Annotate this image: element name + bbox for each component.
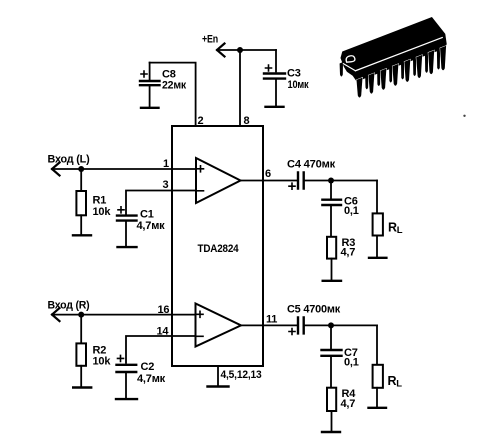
- svg-text:0,1: 0,1: [344, 357, 359, 369]
- label C3 value: [287, 68, 309, 92]
- pin 6 label: [265, 168, 271, 180]
- resistor R1: [76, 169, 86, 235]
- ground R1: [73, 234, 91, 236]
- svg-text:22мк: 22мк: [162, 80, 187, 92]
- wire pin8 vertical: [239, 50, 241, 126]
- arrow input L: [52, 163, 60, 176]
- svg-text:R1: R1: [93, 195, 107, 207]
- svg-text:4,7: 4,7: [341, 247, 356, 259]
- label +En: [202, 34, 218, 46]
- node out R junction: [328, 322, 334, 328]
- svg-text:1: 1: [163, 158, 169, 170]
- svg-text:8: 8: [244, 115, 250, 127]
- resistor R3: [327, 237, 336, 280]
- wire output pin6: [241, 180, 297, 182]
- pin 8 label: [244, 115, 250, 127]
- ground R3: [323, 280, 341, 282]
- resistor RL (top): [373, 213, 383, 257]
- label RL bottom: [388, 374, 403, 390]
- ground IC: [208, 385, 229, 387]
- resistor R2: [76, 315, 86, 387]
- wire pin3: [126, 191, 196, 215]
- DIP-16 package illustration: [340, 18, 447, 98]
- label C8 value: [162, 69, 187, 92]
- label R1 value: [93, 195, 112, 219]
- label Вход (L): [48, 154, 91, 166]
- label C4 value: [287, 159, 336, 171]
- body left end face edge: [343, 63, 355, 70]
- ground C8: [141, 107, 159, 109]
- svg-text:C2: C2: [141, 361, 155, 373]
- svg-text:L: L: [397, 225, 403, 236]
- svg-text:4,7мк: 4,7мк: [137, 220, 166, 232]
- svg-text:3: 3: [163, 179, 169, 191]
- pin 3 label: [163, 179, 169, 191]
- package body: [341, 18, 446, 82]
- ground C1: [118, 246, 137, 248]
- arrow input R: [52, 308, 60, 321]
- svg-text:11: 11: [266, 314, 277, 326]
- svg-text:C3: C3: [287, 68, 301, 80]
- ground C3: [266, 106, 284, 108]
- ground RL bottom: [369, 407, 387, 409]
- label Вход (R): [48, 299, 91, 311]
- wire +En rail: [217, 49, 276, 51]
- svg-text:4,5,12,13: 4,5,12,13: [221, 369, 262, 381]
- front-row pins: [357, 46, 447, 98]
- node input R junction: [78, 312, 84, 318]
- node input L junction: [78, 166, 84, 172]
- wire C6 branch: [330, 181, 332, 199]
- wire IC ground tap: [217, 366, 219, 386]
- svg-text:L: L: [396, 379, 402, 390]
- svg-text:+En: +En: [202, 34, 218, 46]
- svg-text:10мк: 10мк: [288, 79, 310, 91]
- arrow +En: [217, 44, 225, 57]
- back-row pins: [365, 44, 440, 89]
- label C6 value: [344, 195, 359, 217]
- svg-text:10k: 10k: [93, 356, 112, 368]
- label C7 value: [344, 347, 359, 369]
- capacitor C5: [289, 317, 304, 334]
- capacitor C3: [264, 65, 285, 106]
- ground R2: [73, 386, 91, 388]
- wire input R: [52, 314, 196, 316]
- svg-text:C5 4700мк: C5 4700мк: [287, 304, 341, 316]
- pin 16 label: [158, 304, 170, 316]
- wire RL bottom branch: [376, 325, 378, 364]
- wire C3 branch: [275, 50, 277, 72]
- notch: [346, 56, 355, 62]
- wire RL top branch: [376, 181, 378, 214]
- ground R4: [322, 431, 340, 433]
- ground RL top: [369, 257, 386, 259]
- svg-text:Вход (L): Вход (L): [48, 154, 91, 166]
- wire C5 to RL: [305, 324, 377, 326]
- capacitor C4: [289, 173, 304, 190]
- label R4 value: [341, 388, 357, 410]
- capacitor C1: [117, 207, 137, 247]
- wire C4 to RL: [305, 180, 377, 182]
- svg-text:TDA2824: TDA2824: [198, 243, 240, 255]
- IC U1 label TDA2824: [198, 243, 240, 255]
- svg-text:R: R: [388, 374, 397, 388]
- label C5 value: [287, 304, 341, 316]
- label C2 value: [137, 361, 166, 385]
- IC U1 TDA2824 body: [172, 126, 263, 366]
- label R3 value: [341, 237, 356, 259]
- op-amp U1.1: [196, 158, 241, 203]
- scan speck: [463, 115, 465, 117]
- node supply junction: [237, 47, 243, 53]
- wire C7 branch: [330, 325, 332, 349]
- svg-text:14: 14: [157, 326, 170, 338]
- resistor R4: [327, 388, 336, 432]
- svg-text:C4 470мк: C4 470мк: [287, 159, 336, 171]
- label C1 value: [137, 209, 166, 232]
- op-amp U1.2: [196, 304, 242, 347]
- pin 2 label: [198, 115, 204, 127]
- body ridge highlight: [355, 37, 443, 71]
- pin 14 label: [157, 326, 170, 338]
- svg-text:R: R: [388, 221, 397, 235]
- svg-text:10k: 10k: [93, 206, 112, 218]
- svg-text:C1: C1: [140, 209, 154, 221]
- node out L junction: [328, 178, 334, 184]
- label R2 value: [93, 345, 112, 368]
- resistor RL (bottom): [373, 365, 383, 407]
- capacitor C6: [322, 200, 341, 237]
- pin 11 label: [266, 314, 277, 326]
- wire C8 top rail: [150, 63, 196, 126]
- wire output pin11: [241, 324, 297, 326]
- label pins 4,5,12,13: [221, 369, 262, 381]
- svg-text:16: 16: [158, 304, 170, 316]
- wire pin14: [126, 336, 196, 363]
- svg-text:2: 2: [198, 115, 204, 127]
- svg-text:4,7: 4,7: [341, 398, 356, 410]
- pin 1 label: [163, 158, 169, 170]
- svg-text:0,1: 0,1: [344, 205, 359, 217]
- svg-text:Вход (R): Вход (R): [48, 299, 91, 311]
- back-row pin far left: [340, 62, 343, 77]
- capacitor C8: [140, 63, 160, 107]
- ground C2: [116, 398, 137, 400]
- svg-text:4,7мк: 4,7мк: [137, 373, 166, 385]
- svg-text:6: 6: [265, 168, 271, 180]
- wire input L: [52, 168, 196, 170]
- label RL top: [388, 221, 403, 237]
- capacitor C2: [117, 355, 137, 398]
- capacitor C7: [322, 350, 342, 388]
